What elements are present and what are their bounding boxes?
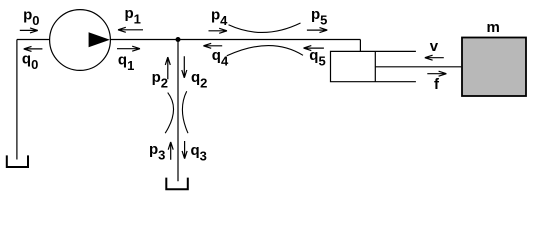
pump P1 — [50, 10, 111, 71]
arrow q3 down — [182, 141, 187, 159]
wire branch vertical to tank — [177, 40, 179, 182]
svg-text:m: m — [487, 19, 500, 36]
arrow p0 right — [20, 28, 38, 33]
arrow p1 left — [118, 27, 143, 32]
hose upper curve — [229, 23, 301, 32]
wire pump outlet horizontal — [110, 39, 360, 41]
orifice restriction — [165, 91, 188, 133]
arrow q0 left — [24, 46, 43, 51]
hose lower curve — [227, 46, 303, 56]
arrow p2 up — [165, 57, 170, 79]
piston — [374, 51, 376, 81]
arrow q4 left — [203, 43, 222, 48]
arrow p5 right — [307, 28, 327, 33]
arrow q5 left — [304, 46, 324, 51]
wire cylinder inlet vertical — [359, 40, 361, 52]
tank T1 — [7, 155, 28, 167]
arrow f right — [427, 71, 446, 76]
arrow v left — [425, 55, 444, 60]
arrow p4 right — [209, 28, 228, 33]
wire left horizontal — [17, 39, 50, 41]
wire left vertical to tank — [16, 40, 18, 160]
piston rod — [375, 66, 461, 68]
svg-text:v: v — [430, 38, 439, 55]
cylinder barrel — [331, 51, 416, 81]
tank T2 — [166, 178, 188, 190]
arrow q1 right — [117, 46, 140, 51]
node junction — [176, 37, 181, 42]
arrow p3 up — [168, 142, 173, 160]
arrow q2 down — [182, 56, 187, 78]
mass m block — [462, 38, 526, 97]
